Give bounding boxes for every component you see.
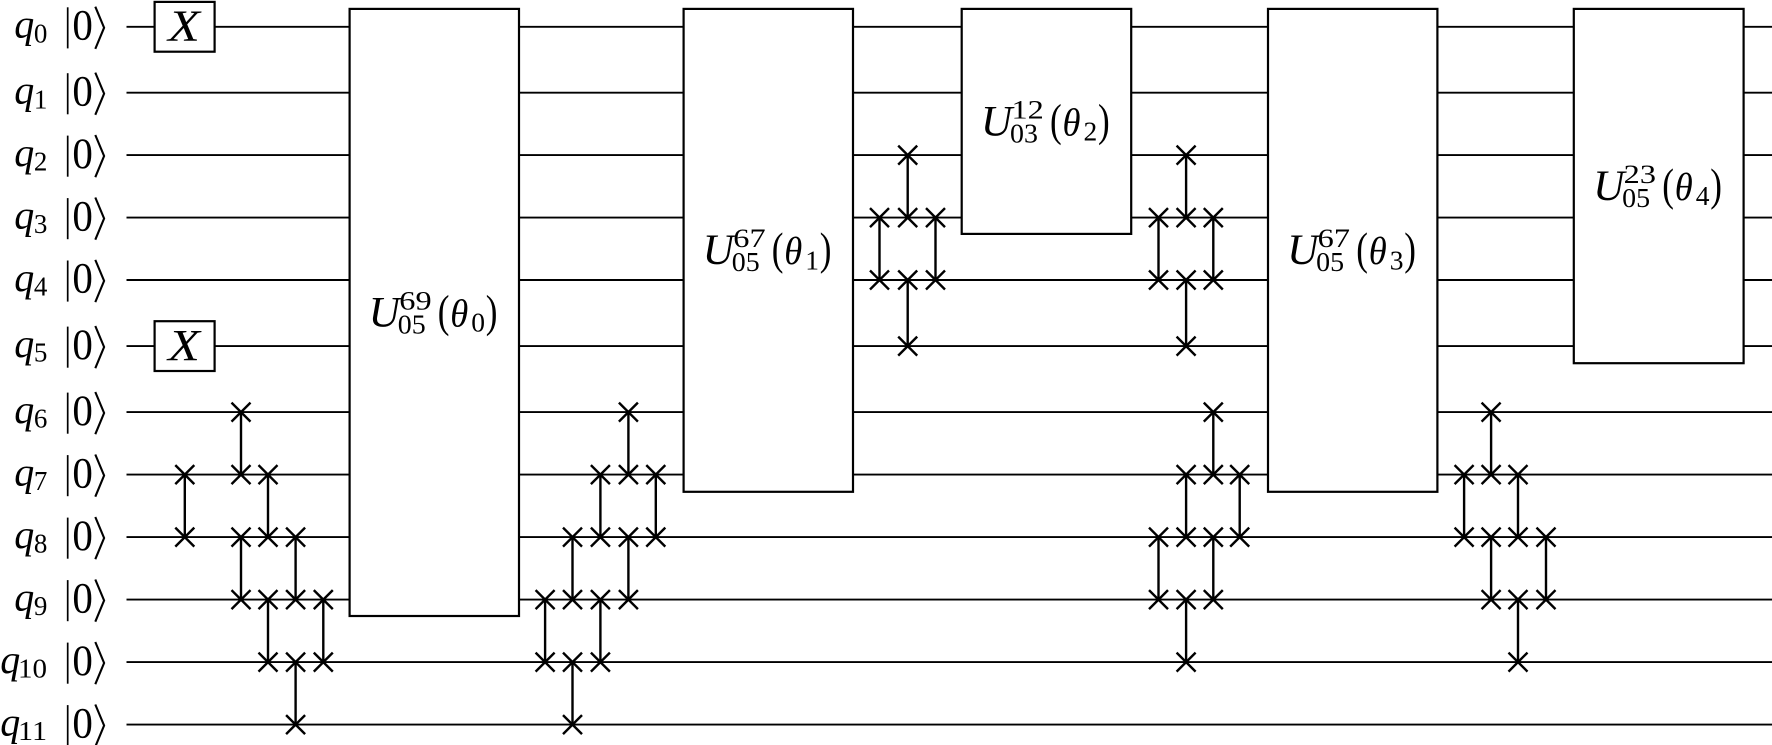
svg-text:0: 0 — [471, 307, 485, 338]
svg-text:10: 10 — [18, 654, 47, 684]
svg-text:q: q — [14, 450, 34, 495]
svg-text:0: 0 — [72, 637, 93, 685]
svg-text:11: 11 — [18, 716, 47, 745]
svg-text:q: q — [14, 387, 34, 432]
svg-text:2: 2 — [1084, 116, 1098, 147]
svg-text:0: 0 — [72, 387, 93, 435]
svg-text:X: X — [166, 321, 203, 370]
svg-text:(: ( — [772, 223, 784, 274]
svg-text:1: 1 — [805, 245, 819, 276]
svg-text:6: 6 — [34, 404, 48, 434]
svg-text:θ: θ — [1063, 101, 1081, 144]
svg-text:q: q — [14, 575, 34, 620]
svg-text:5: 5 — [34, 338, 48, 368]
svg-text:0: 0 — [72, 192, 93, 240]
svg-text:7: 7 — [34, 466, 48, 496]
svg-text:θ: θ — [450, 292, 468, 335]
svg-text:05: 05 — [1622, 183, 1650, 213]
svg-text:9: 9 — [34, 591, 48, 621]
svg-text:θ: θ — [1675, 166, 1693, 209]
svg-text:): ) — [1098, 94, 1110, 145]
svg-text:4: 4 — [34, 272, 48, 302]
svg-text:): ) — [1404, 223, 1416, 274]
svg-text:03: 03 — [1010, 118, 1038, 148]
svg-text:0: 0 — [34, 18, 48, 48]
svg-text:q: q — [14, 2, 34, 47]
svg-text:3: 3 — [1390, 245, 1404, 276]
svg-text:05: 05 — [1316, 247, 1344, 277]
svg-text:05: 05 — [732, 247, 760, 277]
svg-text:q: q — [14, 512, 34, 557]
svg-text:(: ( — [1050, 94, 1062, 145]
svg-text:q: q — [14, 193, 34, 238]
svg-text:q: q — [14, 321, 34, 366]
svg-text:0: 0 — [72, 321, 93, 369]
svg-text:q: q — [14, 68, 34, 113]
svg-text:4: 4 — [1696, 180, 1710, 211]
svg-text:(: ( — [438, 285, 450, 336]
svg-text:): ) — [486, 285, 498, 336]
svg-text:0: 0 — [72, 67, 93, 115]
svg-text:8: 8 — [34, 529, 48, 559]
svg-text:0: 0 — [72, 574, 93, 622]
svg-text:θ: θ — [784, 230, 802, 273]
svg-text:X: X — [166, 2, 203, 51]
svg-text:0: 0 — [72, 449, 93, 497]
svg-text:0: 0 — [72, 255, 93, 303]
svg-text:): ) — [1710, 159, 1722, 210]
svg-text:1: 1 — [34, 84, 48, 114]
svg-text:(: ( — [1662, 159, 1674, 210]
svg-text:(: ( — [1356, 223, 1368, 274]
svg-text:θ: θ — [1369, 230, 1387, 273]
svg-text:0: 0 — [72, 2, 93, 50]
svg-text:0: 0 — [72, 512, 93, 560]
svg-text:05: 05 — [398, 309, 426, 339]
svg-text:3: 3 — [34, 209, 48, 239]
svg-text:q: q — [14, 255, 34, 300]
svg-text:0: 0 — [72, 130, 93, 178]
svg-text:0: 0 — [72, 699, 93, 745]
svg-text:2: 2 — [34, 147, 48, 177]
svg-text:q: q — [14, 130, 34, 175]
svg-text:): ) — [820, 223, 832, 274]
